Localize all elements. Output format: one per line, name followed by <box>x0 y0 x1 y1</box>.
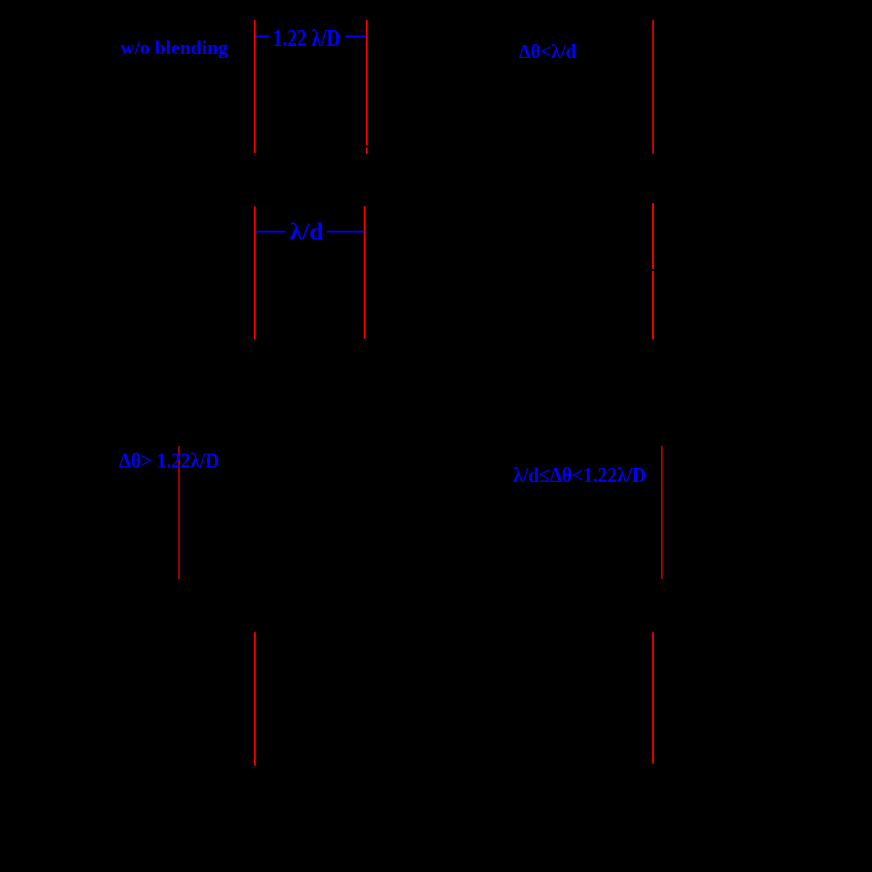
blue leader line left: 1.22 lambda/D separation <box>256 35 270 37</box>
svg-text:1.22 λ/D: 1.22 λ/D <box>273 26 340 52</box>
blue leader line right: 1.22 lambda/D separation <box>345 35 366 37</box>
svg-text:Δθ<λ/d: Δθ<λ/d <box>519 41 576 63</box>
red line: right star position, top-left panel (upper pair) <box>366 20 368 145</box>
svg-text:λ/d≤Δθ<1.22λ/D: λ/d≤Δθ<1.22λ/D <box>513 463 646 487</box>
red line segment: right star below curve crossing, top-left panel (upper pair) <box>366 148 368 154</box>
red line: star position behind label, bottom-left panel (upper) <box>178 446 180 579</box>
red line: star position, bottom-left panel (lower) <box>254 632 256 766</box>
red line: star position, bottom-right panel (upper) <box>661 446 663 579</box>
red line: blended star position, top-right panel (lower segment, below notch) <box>652 271 654 340</box>
blue leader line right: lambda/d separation <box>327 231 365 233</box>
red line: right star position, top-left panel (lower pair) <box>364 206 366 338</box>
red line: left star position, top-left panel (upper pair) <box>254 20 256 153</box>
blue leader line left: lambda/d separation <box>256 231 286 233</box>
red line: blended star position, top-right panel (lower segment, above notch) <box>652 203 654 269</box>
red line: blended star position, top-right panel (upper segment) <box>652 20 654 154</box>
red line: star position, bottom-right panel (lower) <box>652 632 654 764</box>
svg-text:Δθ> 1.22λ/D: Δθ> 1.22λ/D <box>119 449 219 473</box>
red line: left star position, top-left panel (lower pair) <box>254 207 256 340</box>
svg-text:w/o blending: w/o blending <box>120 38 228 59</box>
svg-text:λ/d: λ/d <box>290 219 324 245</box>
